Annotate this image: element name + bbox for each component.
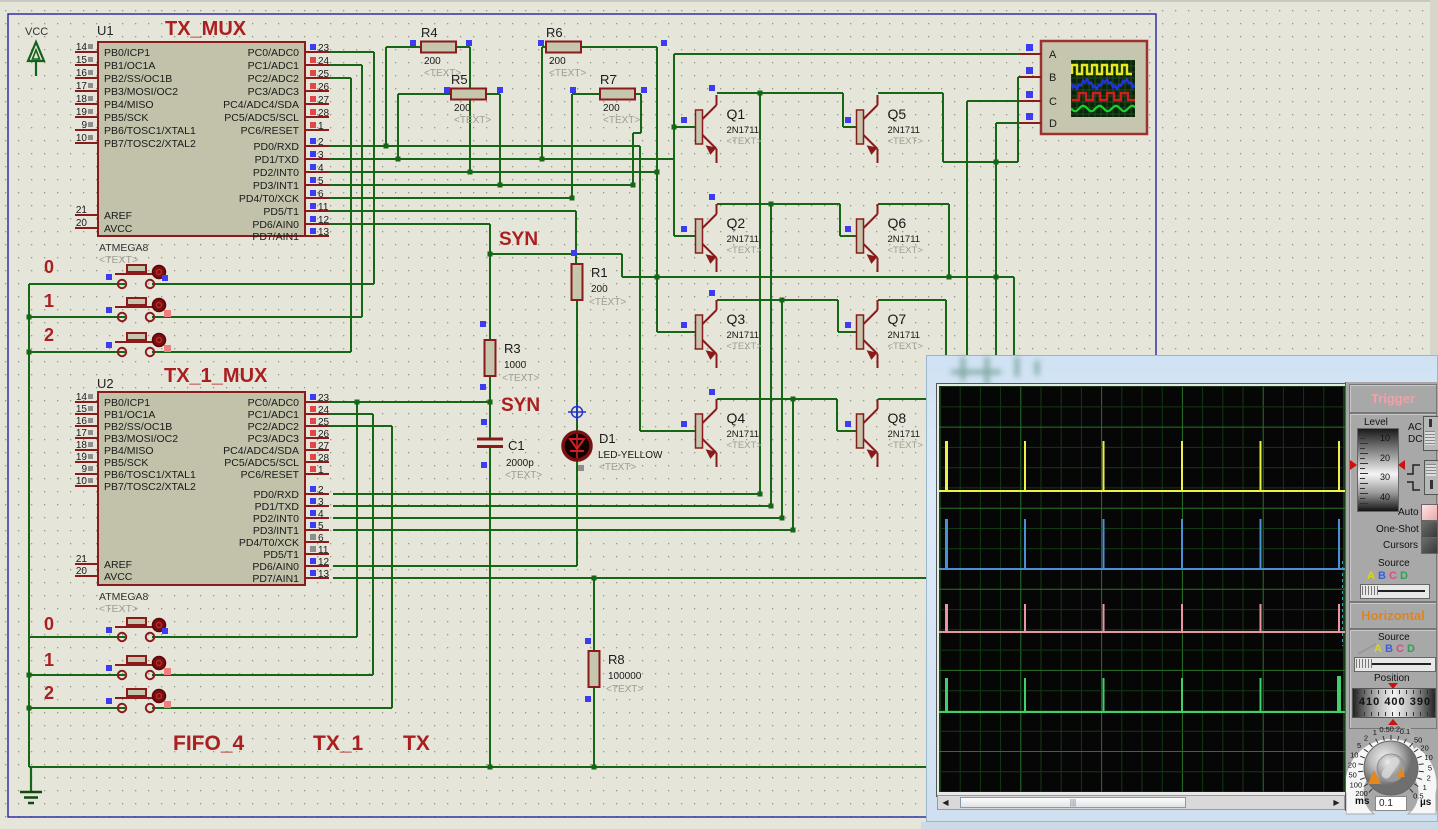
wire button1t right — [152, 316, 362, 318]
wire Q5 base stub — [843, 126, 856, 128]
wire button0t right — [152, 283, 374, 285]
U1 pin 28 (PC5/ADC5/SCL) — [224, 108, 329, 124]
resistor R7 (200) — [600, 72, 640, 126]
svg-text:200: 200 — [424, 56, 441, 67]
wire Q5 collector drop — [942, 93, 944, 162]
svg-text:R4: R4 — [421, 25, 438, 40]
transistor Q1 (2N1711 NPN) — [696, 95, 763, 163]
wire R4 left lead — [386, 46, 421, 48]
svg-text:<TEXT>: <TEXT> — [99, 603, 138, 615]
svg-text:ATMEGA8: ATMEGA8 — [99, 591, 149, 603]
junction — [488, 252, 493, 257]
wire R6 right lead — [581, 46, 657, 48]
junction — [791, 397, 796, 402]
transistor Q7 (2N1711 NPN) — [857, 300, 924, 368]
svg-text:VCC: VCC — [25, 26, 48, 38]
ground symbol — [20, 767, 42, 803]
svg-text:Q2: Q2 — [727, 215, 746, 231]
svg-text:20: 20 — [76, 218, 88, 229]
pin state square — [641, 87, 647, 93]
wire PD5 drop to R1 top — [575, 211, 577, 264]
svg-text:1000: 1000 — [504, 360, 527, 371]
U2 pin 11 (PD5/T1) — [263, 545, 329, 561]
svg-text:D: D — [1049, 118, 1057, 130]
U2 pin 6 (PD4/T0/XCK) — [239, 533, 329, 549]
svg-text:PC3/ADC3: PC3/ADC3 — [248, 86, 300, 98]
wire Q6 collector row — [878, 203, 949, 205]
svg-text:PD4/T0/XCK: PD4/T0/XCK — [239, 537, 299, 549]
wire R8 top lead — [593, 578, 595, 651]
wire PD6 drop to SYN node — [489, 224, 491, 254]
sheet border frame (decorative) — [8, 14, 1156, 817]
svg-text:19: 19 — [76, 107, 88, 118]
svg-text:10: 10 — [1350, 750, 1358, 759]
svg-text:PC1/ADC1: PC1/ADC1 — [248, 60, 300, 72]
wire U1 pin24 to button1t vertical — [361, 65, 363, 317]
IC U1 ATMEGA8 body — [75, 42, 330, 243]
svg-text:Q8: Q8 — [888, 410, 907, 426]
junction — [488, 765, 493, 770]
pin state square — [585, 638, 591, 644]
oscilloscope screen — [939, 386, 1345, 792]
svg-text:PB2/SS/OC1B: PB2/SS/OC1B — [104, 421, 172, 433]
transistor Q4 (2N1711 NPN) — [696, 399, 763, 467]
U2 pin 17 (PB3/MOSI/OC2) — [75, 428, 178, 445]
junction — [655, 275, 660, 280]
wire Q1 collector row — [717, 92, 843, 94]
oscilloscope instrument window — [926, 355, 1438, 822]
svg-text:<TEXT>: <TEXT> — [599, 462, 636, 473]
junction — [355, 400, 360, 405]
svg-text:R7: R7 — [600, 72, 617, 87]
Q2 collector state square — [709, 194, 715, 200]
svg-text:2: 2 — [44, 325, 54, 345]
U1 pin 26 (PC3/ADC3) — [248, 82, 330, 98]
wire R5 left lead — [398, 93, 451, 95]
wire scope A net — [674, 53, 1020, 55]
wire U2 pin23 / SYN node row — [329, 401, 490, 403]
svg-text:18: 18 — [76, 440, 88, 451]
svg-text:PC6/RESET: PC6/RESET — [241, 469, 300, 481]
svg-text:PB1/OC1A: PB1/OC1A — [104, 60, 155, 72]
U1 pin 16 (PB2/SS/OC1B) — [75, 68, 172, 85]
junction — [672, 125, 677, 130]
junction — [27, 706, 32, 711]
svg-text:PC6/RESET: PC6/RESET — [241, 125, 300, 137]
svg-text:28: 28 — [318, 108, 330, 119]
U1 pin 25 (PC2/ADC2) — [248, 69, 330, 85]
svg-text:PB4/MISO: PB4/MISO — [104, 445, 154, 457]
pin state square — [481, 462, 487, 468]
svg-text:<TEXT>: <TEXT> — [888, 136, 924, 147]
wire U2 pin24 stub — [329, 413, 373, 415]
Trigger section title — [1349, 384, 1437, 413]
svg-text:26: 26 — [318, 429, 330, 440]
wire button0b left — [29, 636, 125, 638]
svg-text:6: 6 — [318, 189, 324, 200]
junction — [780, 298, 785, 303]
Q6 base state square — [845, 226, 851, 232]
svg-text:27: 27 — [318, 441, 330, 452]
svg-text:0.2: 0.2 — [1390, 725, 1400, 734]
svg-text:13: 13 — [318, 569, 330, 580]
svg-text:1: 1 — [318, 121, 324, 132]
svg-text:PC4/ADC4/SDA: PC4/ADC4/SDA — [223, 99, 299, 111]
svg-text:2N1711: 2N1711 — [727, 234, 760, 245]
svg-text:18: 18 — [76, 94, 88, 105]
svg-text:<TEXT>: <TEXT> — [603, 115, 640, 126]
wire U1 PD6 bus — [329, 223, 490, 225]
junction — [27, 350, 32, 355]
U1 pin 10 (PB7/TOSC2/XTAL2) — [75, 133, 196, 150]
wire Q3 collector row — [717, 299, 838, 301]
wire button0b right — [152, 636, 357, 638]
oscilloscope pin C — [1020, 100, 1041, 102]
svg-text:0: 0 — [44, 614, 54, 634]
svg-text:<TEXT>: <TEXT> — [502, 373, 539, 384]
wire Q3 base stub — [657, 331, 696, 333]
wire R3 bottom to C1 — [489, 376, 491, 438]
svg-text:AVCC: AVCC — [104, 223, 133, 235]
junction — [27, 673, 32, 678]
wire scope D net drop — [995, 123, 997, 356]
svg-text:ATMEGA8: ATMEGA8 — [99, 242, 149, 254]
svg-text:2: 2 — [318, 485, 324, 496]
wire R6 right drop to Q3 base — [656, 47, 658, 332]
wire R5 right lead — [486, 93, 500, 95]
svg-text:PC2/ADC2: PC2/ADC2 — [248, 421, 300, 433]
wire R8 bottom lead — [593, 685, 595, 767]
wire Q4 collector row — [717, 398, 837, 400]
wire scope B net row — [943, 161, 1018, 163]
wire to Q7 base — [837, 300, 839, 332]
wire to Q6 base — [839, 204, 841, 236]
wire D1 cathode drop — [576, 460, 578, 566]
wire scope C net drop — [966, 101, 968, 356]
svg-text:3: 3 — [318, 150, 324, 161]
wire bottom ground rail — [29, 766, 926, 768]
svg-text:PD3/INT1: PD3/INT1 — [253, 180, 299, 192]
svg-text:PC1/ADC1: PC1/ADC1 — [248, 409, 300, 421]
pin state square — [444, 87, 450, 93]
wire button1b right — [152, 674, 373, 676]
wire Q3 collector to U2 PD2 — [781, 300, 783, 518]
svg-text:26: 26 — [318, 82, 330, 93]
wire R4 left drop — [385, 47, 387, 146]
wire U1 pin23 stub — [329, 51, 374, 53]
oscilloscope pin A — [1020, 53, 1041, 55]
svg-text:2: 2 — [1427, 774, 1431, 783]
svg-text:TX_1_MUX: TX_1_MUX — [164, 365, 268, 387]
wire U2 PD0 bus — [333, 493, 760, 495]
junction — [758, 91, 763, 96]
resistor R5 (200) — [451, 72, 491, 126]
svg-text:13: 13 — [318, 227, 330, 238]
svg-text:2: 2 — [318, 137, 324, 148]
wire U2 PD3 bus — [333, 529, 793, 531]
wire B stub — [1018, 76, 1021, 78]
Horizontal controls — [1349, 629, 1437, 729]
Q5 base state square — [845, 117, 851, 123]
wire SYN to R3 top — [489, 254, 491, 340]
oscilloscope pin D — [1020, 122, 1041, 124]
svg-text:PB6/TOSC1/XTAL1: PB6/TOSC1/XTAL1 — [104, 469, 196, 481]
pin state square — [410, 40, 416, 46]
junction — [780, 516, 785, 521]
U1 pin 12 (PD6/AIN0) — [252, 215, 329, 231]
wire U2 pin24 to button1b vertical — [372, 414, 374, 675]
wire button2b right — [152, 707, 392, 709]
U2 pin 21 (AREF) — [75, 554, 132, 571]
wire collector bus y277 — [622, 276, 1014, 278]
junction — [655, 170, 660, 175]
pin state square — [570, 87, 576, 93]
svg-text:Q1: Q1 — [727, 106, 746, 122]
svg-text:ms: ms — [1355, 796, 1370, 807]
wire R4 right lead — [456, 46, 470, 48]
svg-text:C: C — [1049, 96, 1057, 108]
svg-text:PC5/ADC5/SCL: PC5/ADC5/SCL — [224, 112, 299, 124]
junction — [498, 183, 503, 188]
svg-text:17: 17 — [76, 428, 88, 439]
junction — [769, 202, 774, 207]
U1 pin 20 (AVCC) — [75, 218, 133, 235]
wire button1b left — [29, 674, 125, 676]
svg-text:6: 6 — [318, 533, 324, 544]
wire D1 to U2 PD6 — [333, 565, 577, 567]
wire button2t left — [29, 351, 125, 353]
U1 pin 13 (PD7/AIN1) — [252, 227, 329, 243]
svg-text:20: 20 — [1420, 744, 1428, 753]
junction — [27, 315, 32, 320]
Q4 collector state square — [709, 389, 715, 395]
svg-text:9: 9 — [81, 464, 87, 475]
svg-text:PD0/RXD: PD0/RXD — [253, 489, 299, 501]
svg-text:2: 2 — [1364, 734, 1368, 743]
svg-text:21: 21 — [76, 554, 88, 565]
svg-text:PC0/ADC0: PC0/ADC0 — [248, 47, 300, 59]
U1 pin 24 (PC1/ADC1) — [248, 56, 330, 72]
transistor Q6 (2N1711 NPN) — [857, 204, 924, 272]
pin state square — [466, 40, 472, 46]
pin state square — [480, 321, 486, 327]
wire Q7 collector drop behind window — [945, 300, 947, 356]
U1 pin 15 (PB1/OC1A) — [75, 55, 155, 72]
junction — [994, 160, 999, 165]
U2 pin 27 (PC4/ADC4/SDA) — [223, 441, 329, 457]
svg-text:12: 12 — [318, 557, 330, 568]
U2 pin 24 (PC1/ADC1) — [248, 405, 330, 421]
wire U2 pin23 to button0b vertical — [356, 402, 358, 637]
svg-text:PC5/ADC5/SCL: PC5/ADC5/SCL — [224, 457, 299, 469]
U1 pin 21 (AREF) — [75, 205, 132, 222]
svg-text:R6: R6 — [546, 25, 563, 40]
wire C1 bottom to ground rail — [489, 447, 491, 767]
wire left ground rail vertical — [28, 284, 30, 767]
U2 pin 13 (PD7/AIN1) — [252, 569, 329, 585]
wire Q2 collector row — [717, 203, 840, 205]
svg-text:20: 20 — [1348, 760, 1356, 769]
wire U2 PD2 bus — [333, 517, 782, 519]
U1 pin 27 (PC4/ADC4/SDA) — [223, 95, 329, 111]
wire to Q5 base — [842, 93, 844, 127]
wire U1 PD2 bus — [329, 171, 657, 173]
oscilloscope symbol mini screen — [1071, 60, 1135, 117]
svg-text:TX_MUX: TX_MUX — [165, 18, 247, 40]
push button — [106, 333, 171, 356]
wire Q7 base stub — [838, 331, 856, 333]
Q8 base state square — [845, 421, 851, 427]
wire Q6 base stub — [840, 235, 856, 237]
resistor R8 (100000) — [589, 651, 644, 695]
svg-text:15: 15 — [76, 55, 88, 66]
U1 pin 19 (PB5/SCK) — [75, 107, 148, 124]
svg-text:1: 1 — [318, 465, 324, 476]
svg-text:TX_1: TX_1 — [313, 732, 364, 755]
U1 pin 18 (PB4/MISO) — [75, 94, 154, 111]
svg-text:11: 11 — [318, 545, 329, 556]
junction — [592, 765, 597, 770]
svg-text:<TEXT>: <TEXT> — [888, 440, 924, 451]
svg-text:2N1711: 2N1711 — [888, 429, 921, 440]
svg-text:LED-YELLOW: LED-YELLOW — [598, 450, 663, 461]
svg-text:PD2/INT0: PD2/INT0 — [253, 513, 299, 525]
wire Q7 collector row — [878, 299, 946, 301]
U2 pin 9 (PB6/TOSC1/XTAL1) — [75, 464, 196, 481]
wire Q8 collector row — [878, 398, 926, 400]
svg-text:PD4/T0/XCK: PD4/T0/XCK — [239, 193, 299, 205]
wire R6 left drop — [541, 47, 543, 159]
wire scope C stub row — [967, 100, 1020, 102]
svg-text:PD6/AIN0: PD6/AIN0 — [252, 219, 299, 231]
wire U2 PD1 bus — [333, 505, 771, 507]
transistor Q5 (2N1711 NPN) — [857, 95, 924, 163]
svg-text:R3: R3 — [504, 341, 521, 356]
svg-text:<TEXT>: <TEXT> — [454, 115, 491, 126]
svg-text:PD5/T1: PD5/T1 — [263, 549, 299, 561]
svg-text:PB2/SS/OC1B: PB2/SS/OC1B — [104, 73, 172, 85]
svg-text:16: 16 — [76, 416, 88, 427]
U2 pin 16 (PB2/SS/OC1B) — [75, 416, 172, 433]
wire Q1 base stub — [674, 126, 696, 128]
svg-text:R8: R8 — [608, 652, 625, 667]
oscilloscope control panel — [1345, 382, 1438, 811]
junction — [468, 170, 473, 175]
wire to Q8 base — [836, 399, 838, 431]
U2 pin 25 (PC2/ADC2) — [248, 417, 330, 433]
svg-text:<TEXT>: <TEXT> — [727, 245, 763, 256]
svg-text:25: 25 — [318, 69, 330, 80]
svg-text:<TEXT>: <TEXT> — [888, 245, 924, 256]
svg-text:2N1711: 2N1711 — [727, 429, 760, 440]
oscilloscope pin B — [1020, 76, 1041, 78]
svg-text:2000p: 2000p — [506, 458, 534, 469]
push button — [106, 689, 171, 712]
U2 pin 12 (PD6/AIN0) — [252, 557, 329, 573]
wire Q2 collector to U2 PD1 — [770, 204, 772, 506]
U1 pin 9 (PB6/TOSC1/XTAL1) — [75, 120, 196, 137]
svg-text:2N1711: 2N1711 — [888, 330, 921, 341]
U1 pin 5 (PD3/INT1) — [253, 176, 329, 192]
svg-text:14: 14 — [76, 42, 88, 53]
svg-text:Q3: Q3 — [727, 311, 746, 327]
svg-text:5: 5 — [1428, 763, 1432, 772]
svg-text:200: 200 — [603, 103, 620, 114]
wire R7 right jog — [633, 132, 641, 134]
junction — [570, 196, 575, 201]
svg-text:PB3/MOSI/OC2: PB3/MOSI/OC2 — [104, 433, 178, 445]
wire U2 pin25 to button2b vertical — [391, 426, 393, 708]
svg-text:9: 9 — [81, 120, 87, 131]
svg-text:4: 4 — [318, 163, 324, 174]
svg-text:PD6/AIN0: PD6/AIN0 — [252, 561, 299, 573]
svg-text:2: 2 — [44, 683, 54, 703]
svg-text:2N1711: 2N1711 — [888, 125, 921, 136]
wire U1 PD0 bus — [329, 145, 640, 147]
junction — [994, 275, 999, 280]
wire Q1 collector to U2 PD0 — [759, 93, 761, 494]
svg-text:2N1711: 2N1711 — [727, 330, 760, 341]
U1 pin 4 (PD2/INT0) — [253, 163, 329, 179]
Q1 base state square — [681, 117, 687, 123]
svg-text:1: 1 — [44, 291, 54, 311]
node origin marker (crosshair) — [568, 403, 586, 421]
wire U2 pin25 stub — [329, 425, 392, 427]
svg-text:3: 3 — [318, 497, 324, 508]
wire button1t left — [29, 316, 125, 318]
junction — [540, 157, 545, 162]
svg-text:5: 5 — [318, 176, 324, 187]
svg-text:24: 24 — [318, 405, 330, 416]
wire U1 pin24 stub — [329, 64, 362, 66]
svg-text:50: 50 — [1349, 771, 1357, 780]
wire Q2 base stub — [674, 235, 696, 237]
push button — [106, 656, 171, 679]
Q3 collector state square — [709, 290, 715, 296]
svg-text:100000: 100000 — [608, 671, 642, 682]
U1 pin 2 (PD0/RXD) — [253, 137, 329, 153]
svg-text:D1: D1 — [599, 431, 616, 446]
svg-text:PC4/ADC4/SDA: PC4/ADC4/SDA — [223, 445, 299, 457]
U2 pin 18 (PB4/MISO) — [75, 440, 154, 457]
svg-text:5: 5 — [318, 521, 324, 532]
transistor Q3 (2N1711 NPN) — [696, 300, 763, 368]
oscilloscope symbol (schematic part) — [1020, 41, 1147, 134]
U2 pin 3 (PD1/TXD) — [255, 497, 329, 513]
junction — [758, 492, 763, 497]
svg-text:PC0/ADC0: PC0/ADC0 — [248, 397, 300, 409]
svg-text:Q5: Q5 — [888, 106, 907, 122]
wire R5 left drop — [397, 94, 399, 159]
pin state square — [538, 40, 544, 46]
svg-text:23: 23 — [318, 43, 330, 54]
svg-text:5: 5 — [1357, 741, 1361, 750]
resistor R3 (1000) — [485, 340, 540, 384]
svg-text:14: 14 — [76, 392, 88, 403]
svg-text:1: 1 — [44, 650, 54, 670]
svg-text:<TEXT>: <TEXT> — [727, 440, 763, 451]
svg-text:U1: U1 — [97, 23, 114, 38]
svg-text:20: 20 — [76, 566, 88, 577]
svg-text:21: 21 — [76, 205, 88, 216]
wire R7 right drop 2 — [632, 133, 634, 185]
svg-text:PD3/INT1: PD3/INT1 — [253, 525, 299, 537]
wire ghost behind window title band — [941, 357, 1051, 389]
push button — [106, 265, 168, 288]
svg-text:PB7/TOSC2/XTAL2: PB7/TOSC2/XTAL2 — [104, 138, 196, 150]
svg-text:AREF: AREF — [104, 559, 132, 571]
wire button0t left — [29, 283, 125, 285]
